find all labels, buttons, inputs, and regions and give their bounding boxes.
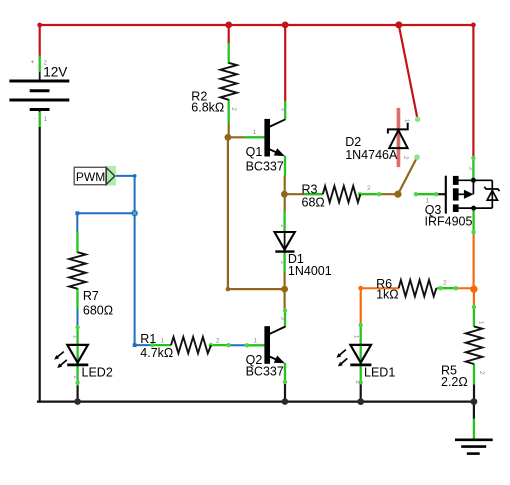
- svg-text:2: 2: [402, 156, 409, 160]
- svg-text:2: 2: [478, 371, 485, 375]
- svg-text:IRF4905: IRF4905: [425, 215, 473, 229]
- svg-text:3: 3: [279, 316, 286, 320]
- svg-text:PWM: PWM: [76, 170, 105, 184]
- svg-text:2: 2: [72, 375, 79, 379]
- svg-text:680Ω: 680Ω: [83, 303, 113, 317]
- svg-text:-: -: [34, 116, 36, 123]
- svg-text:2: 2: [216, 337, 220, 344]
- svg-text:1: 1: [254, 338, 258, 345]
- svg-text:4.7kΩ: 4.7kΩ: [140, 346, 173, 360]
- svg-text:+: +: [31, 59, 35, 66]
- svg-text:1kΩ: 1kΩ: [376, 288, 399, 302]
- svg-text:3: 3: [467, 166, 474, 170]
- svg-text:1N4746A: 1N4746A: [345, 148, 398, 162]
- svg-text:BC337: BC337: [246, 159, 284, 173]
- svg-text:1: 1: [478, 321, 485, 325]
- svg-text:1: 1: [253, 129, 257, 136]
- svg-text:2: 2: [367, 185, 371, 192]
- svg-text:2: 2: [279, 261, 286, 265]
- svg-text:2: 2: [443, 279, 447, 286]
- svg-text:2: 2: [354, 380, 361, 384]
- svg-text:2.2Ω: 2.2Ω: [441, 375, 468, 389]
- svg-text:Q1: Q1: [246, 145, 263, 159]
- svg-text:D2: D2: [345, 135, 361, 149]
- svg-text:1: 1: [426, 197, 430, 204]
- svg-text:68Ω: 68Ω: [302, 195, 325, 209]
- svg-text:R1: R1: [140, 332, 156, 346]
- svg-text:3: 3: [280, 108, 287, 112]
- svg-text:2: 2: [44, 60, 48, 67]
- svg-text:12V: 12V: [43, 65, 67, 80]
- svg-text:LED1: LED1: [364, 365, 395, 379]
- svg-text:1: 1: [353, 335, 360, 339]
- svg-text:1N4001: 1N4001: [288, 264, 332, 278]
- svg-text:LED2: LED2: [82, 365, 113, 379]
- svg-text:BC337: BC337: [246, 365, 284, 379]
- svg-text:R7: R7: [83, 289, 99, 303]
- svg-text:1: 1: [403, 119, 410, 123]
- svg-text:1: 1: [161, 337, 165, 344]
- svg-text:2: 2: [230, 107, 237, 111]
- svg-text:1: 1: [44, 116, 48, 123]
- svg-text:6.8kΩ: 6.8kΩ: [191, 101, 224, 115]
- svg-text:1: 1: [72, 335, 79, 339]
- svg-text:1: 1: [279, 224, 286, 228]
